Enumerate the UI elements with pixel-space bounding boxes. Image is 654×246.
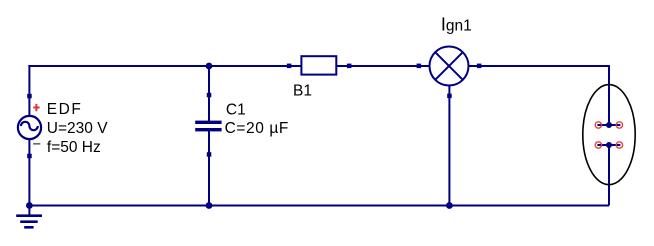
wire left rail lower	[28, 139, 30, 206]
pin square Ign1 right	[477, 64, 482, 69]
wire bottom rail	[29, 205, 609, 207]
node junction dot bottom of C1	[206, 202, 213, 209]
pin square B1 left	[287, 64, 292, 69]
wire top rail right segment	[469, 65, 610, 67]
label B1	[293, 83, 312, 100]
pin square Ign1 left	[417, 64, 422, 69]
ballast B1 box	[301, 56, 336, 74]
fluorescent tube envelope ellipse	[583, 85, 635, 185]
pin square C1 top	[207, 93, 212, 98]
wire right rail upper	[608, 65, 610, 125]
svg-text:C1: C1	[226, 102, 246, 119]
pin square B1 right	[347, 64, 352, 69]
polarity plus sign	[33, 104, 39, 111]
label Ign1	[441, 14, 472, 34]
node junction dot bottom of Ign1	[446, 202, 453, 209]
node junction dot ground tap	[26, 202, 33, 209]
AC source V1 circle with sine	[18, 116, 41, 139]
label C1	[226, 102, 246, 119]
wire top rail middle segment	[336, 65, 429, 67]
wire right rail lower	[608, 145, 610, 206]
svg-text:f=50 Hz: f=50 Hz	[47, 139, 101, 156]
wire left rail upper	[28, 65, 30, 116]
label f=50 Hz	[47, 139, 101, 156]
svg-text:U=230 V: U=230 V	[47, 120, 108, 137]
polarity minus sign	[33, 143, 40, 145]
wire lamp bottom branch	[448, 85, 450, 206]
wire top rail left segment	[28, 65, 302, 67]
wire capacitor branch upper	[208, 66, 210, 121]
label U=230 V	[47, 120, 108, 137]
pin square above source	[27, 94, 32, 99]
tube electrode row 2	[595, 142, 622, 148]
pin square Ign1 bottom	[447, 94, 452, 99]
label EDF	[47, 101, 83, 118]
svg-text:Ign1: Ign1	[441, 14, 472, 34]
capacitor C1 plates	[195, 121, 221, 132]
ground	[16, 206, 42, 229]
svg-text:EDF: EDF	[47, 101, 83, 118]
label C=20 uF	[225, 120, 289, 137]
pin square C1 bottom	[207, 152, 212, 157]
svg-text:B1: B1	[293, 83, 312, 100]
node junction dot top of C1	[206, 63, 213, 70]
igniter lamp Ign1	[430, 47, 469, 86]
wire capacitor branch lower	[208, 131, 210, 206]
tube electrode row 1	[595, 122, 622, 128]
svg-text:C=20 µF: C=20 µF	[225, 120, 289, 137]
pin square below source	[27, 154, 32, 159]
